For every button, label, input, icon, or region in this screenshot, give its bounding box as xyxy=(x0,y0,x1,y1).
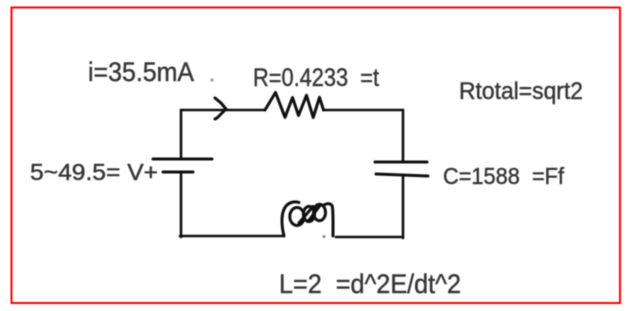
svg-text:C=1588 =Ff: C=1588 =Ff xyxy=(443,163,565,189)
stray mark near i label xyxy=(210,78,214,82)
wire: top-left vertical (battery + to top rail) xyxy=(180,110,183,158)
wire: top rail right segment xyxy=(324,109,404,112)
svg-text:Rtotal=sqrt2: Rtotal=sqrt2 xyxy=(459,78,583,105)
wire: bottom rail left segment xyxy=(180,235,282,238)
wire: right vertical lower (capacitor to bottom rail) xyxy=(402,175,405,238)
wire: right vertical upper (to capacitor) xyxy=(402,110,405,161)
wire: left vertical lower (battery - to bottom rail) xyxy=(180,173,183,237)
stray mark under coil xyxy=(323,235,326,238)
battery V+ long plate xyxy=(153,158,212,161)
svg-text:5~49.5= V+: 5~49.5= V+ xyxy=(30,159,158,185)
resistor R (zigzag) xyxy=(265,93,324,118)
wire: bottom rail right segment xyxy=(336,236,403,239)
inductor L (scribbled coil) xyxy=(282,202,333,236)
wire: top rail left segment xyxy=(181,109,265,112)
svg-text:R=0.4233 =t: R=0.4233 =t xyxy=(253,64,379,92)
capacitor C top plate xyxy=(375,161,427,164)
svg-text:L=2 =d^2E/dt^2: L=2 =d^2E/dt^2 xyxy=(279,269,461,299)
svg-text:i=35.5mA: i=35.5mA xyxy=(88,57,194,87)
battery V+ short plate xyxy=(163,171,193,174)
current arrow head xyxy=(215,98,226,119)
capacitor C bottom plate xyxy=(376,174,428,176)
